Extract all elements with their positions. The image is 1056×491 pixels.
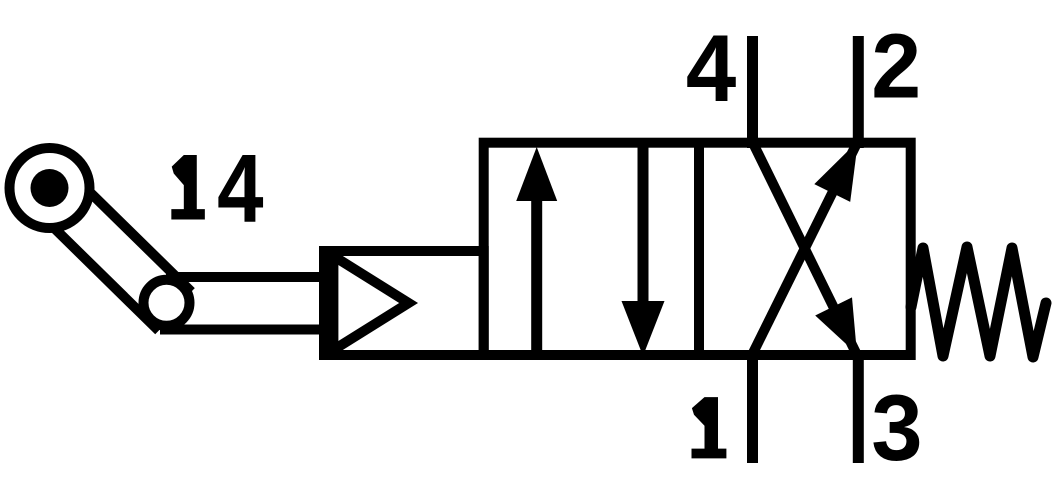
spring: [911, 247, 1046, 357]
actuator box: [324, 251, 484, 355]
valve body: [484, 143, 911, 355]
up arrow head: [516, 147, 557, 201]
cross diagonal 1 arrow head: [814, 141, 858, 202]
port 3 stub: [853, 350, 864, 463]
port 2 stub: [853, 36, 864, 148]
svg-text:4: 4: [216, 137, 266, 252]
plunger bottom line: [160, 325, 330, 335]
actuator triangle: [333, 256, 408, 350]
cross diagonal 2 arrow head: [815, 297, 857, 354]
cross diagonal 2 (to port 3): [752, 141, 857, 355]
roller circle: [10, 148, 90, 228]
label 14 : digit 1: [171, 155, 205, 219]
lever lower tangent line: [39, 213, 159, 331]
down arrow head: [622, 301, 665, 356]
plunger top line: [166, 272, 330, 282]
roller dot: [31, 169, 69, 207]
up arrow shaft: [531, 190, 542, 355]
port 1 stub: [747, 350, 758, 463]
pivot circle: [144, 280, 190, 326]
cross diagonal 1 (to port 2): [750, 141, 858, 359]
divider between squares: [694, 142, 704, 356]
lever upper tangent line: [74, 177, 191, 292]
down arrow shaft: [638, 143, 649, 310]
label port 1: [692, 397, 727, 458]
svg-text:2: 2: [869, 18, 923, 126]
svg-text:3: 3: [869, 380, 924, 491]
svg-text:4: 4: [684, 18, 738, 131]
port 4 stub: [747, 36, 758, 148]
